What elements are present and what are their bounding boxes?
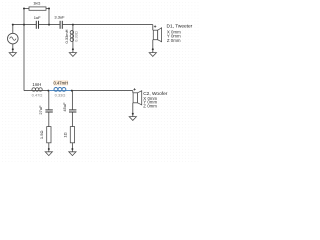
wire shunt inductor body line <box>72 30 74 41</box>
tweeter D1 plus sign <box>154 25 156 27</box>
node dot shunt L gnd <box>72 48 74 50</box>
wire tweeter top lead <box>152 25 154 31</box>
svg-text:0.33Ω: 0.33Ω <box>55 93 66 98</box>
wire branch2 lower lead <box>71 143 73 152</box>
node dot C <box>72 24 74 26</box>
woofer C2 plus sign <box>133 88 135 90</box>
wire top rail segment 1 <box>13 24 36 26</box>
wire tweeter bottom lead <box>152 40 154 53</box>
woofer C2 cone <box>138 91 142 105</box>
ground branch2 <box>69 152 76 156</box>
node dot A <box>23 24 25 26</box>
svg-text:27uF: 27uF <box>38 105 43 115</box>
ground branch1 <box>45 152 52 156</box>
wire woofer rail <box>24 90 49 92</box>
svg-text:Z 0mm: Z 0mm <box>143 104 157 109</box>
inductor L3 selected blue lead <box>49 90 71 92</box>
wire woofer rail right part <box>72 90 133 92</box>
wire R1 left lead <box>24 8 29 10</box>
capacitor C1 plates <box>36 21 38 29</box>
woofer C2 driver rect <box>133 93 137 103</box>
inductor L1 shunt coils <box>70 31 74 42</box>
node dot B <box>48 24 50 26</box>
node dot R1 left <box>23 8 25 10</box>
inductor L3 coils selected blue <box>54 88 66 92</box>
svg-text:1uF: 1uF <box>34 15 41 20</box>
capacitor C2 plates <box>60 21 62 29</box>
wire woofer top lead <box>132 91 134 93</box>
node dot R1 right <box>48 8 50 10</box>
capacitor C4 plates <box>69 110 76 112</box>
ground shunt inductor <box>69 53 76 57</box>
wire branch1 mid lead <box>48 112 50 126</box>
node dot generator top <box>12 24 14 26</box>
svg-text:0.47mH: 0.47mH <box>53 81 68 86</box>
wire branch1 upper lead <box>48 91 50 110</box>
generator V1 sine <box>10 37 16 40</box>
ground tweeter <box>149 53 156 57</box>
tweeter D1 cone <box>158 28 162 42</box>
node dot woofer rail right <box>71 90 73 92</box>
wire node A vertical (R1 left leg down to woofer rail) <box>23 9 25 91</box>
svg-text:0.47Ω: 0.47Ω <box>32 93 43 98</box>
svg-text:1mH: 1mH <box>32 82 41 87</box>
tweeter D1 driver rect <box>153 30 157 40</box>
resistor R2 body <box>47 127 51 143</box>
ground generator <box>9 53 16 57</box>
node dot woofer rail left <box>47 90 49 92</box>
wire top rail segment 3 <box>63 24 153 26</box>
wire top rail segment 2 <box>39 24 60 26</box>
resistor R1 body <box>29 7 46 10</box>
wire shunt inductor top lead <box>72 25 74 31</box>
wire branch2 mid lead <box>71 112 73 126</box>
node dot generator gnd <box>12 48 14 50</box>
generator V1 circle <box>8 33 19 44</box>
inductor L2 coils (1mH) <box>32 88 42 92</box>
svg-text:0.33mH: 0.33mH <box>64 29 69 43</box>
wire shunt inductor bottom lead <box>72 42 74 53</box>
capacitor C3 plates <box>45 110 52 112</box>
wire branch1 lower lead <box>48 143 50 152</box>
svg-text:45uF: 45uF <box>62 102 67 112</box>
inductor L3 value highlight <box>53 80 68 85</box>
svg-text:Z 0mm: Z 0mm <box>167 38 181 43</box>
svg-text:3.3uF: 3.3uF <box>54 14 65 19</box>
node dot tweeter gnd <box>152 48 154 50</box>
svg-text:1kΩ: 1kΩ <box>33 1 40 6</box>
node dot woofer gnd <box>132 113 134 115</box>
wire R1 right leg <box>48 9 50 25</box>
node dot branch1 gnd <box>48 148 50 150</box>
wire R1 right lead <box>46 8 49 10</box>
wire generator bottom lead <box>12 44 14 53</box>
svg-text:1.5Ω: 1.5Ω <box>39 131 44 140</box>
wire branch2 upper lead <box>71 91 73 110</box>
wire generator top lead <box>12 25 14 34</box>
ground woofer <box>129 117 136 121</box>
resistor R3 body <box>70 127 74 143</box>
node dot branch2 gnd <box>71 148 73 150</box>
svg-text:1Ω: 1Ω <box>63 132 68 137</box>
wire woofer bottom lead <box>132 103 134 117</box>
svg-text:0.33Ω: 0.33Ω <box>73 31 78 42</box>
